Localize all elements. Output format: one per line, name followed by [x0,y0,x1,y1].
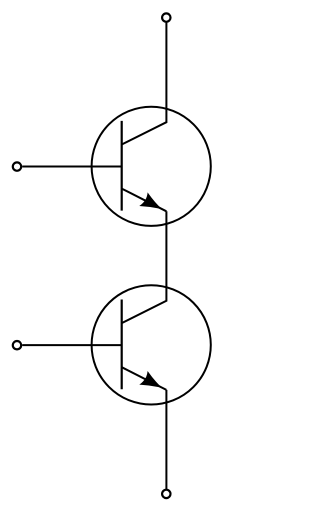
wire: Q2 base lead [22,344,122,346]
wire: Q1 emitter to Q2 collector [122,211,167,323]
wire: Q2 emitter to bottom terminal [165,390,167,490]
wire: top terminal to Q1 collector [122,22,167,144]
transistor Q2 emitter arrow [139,371,162,388]
transistor Q2 base bar [121,300,123,390]
terminal (left upper, Q1 base) [13,162,21,170]
transistor Q1 emitter arrow [139,192,162,209]
terminal (top, Q1 collector) [162,13,170,21]
transistor Q2 emitter line [122,367,167,390]
transistor Q1 envelope [92,107,211,226]
transistor Q1 base bar [121,121,123,211]
transistor Q1 emitter line [122,189,167,212]
terminal (left lower, Q2 base) [13,341,21,349]
wire: Q1 base lead [22,166,122,168]
transistor Q2 envelope [92,285,211,404]
terminal (bottom, Q2 emitter) [162,490,170,498]
